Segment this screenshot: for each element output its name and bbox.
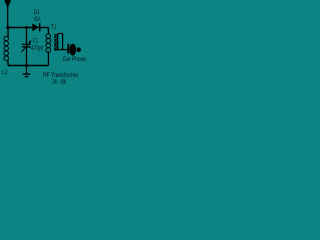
svg-text:470pf: 470pf [31, 46, 44, 52]
wire diode to corner [41, 27, 49, 29]
earphone [67, 44, 69, 54]
capacitor C1 arrow [21, 42, 30, 52]
background [0, 0, 88, 88]
svg-text:1k : 8k: 1k : 8k [52, 79, 67, 86]
wire top [8, 27, 32, 29]
wire C1 top lead [26, 28, 28, 44]
svg-text:Ear Phone: Ear Phone [63, 56, 86, 63]
svg-text:C1: C1 [33, 39, 39, 45]
wire earphone lead [58, 49, 68, 51]
transformer T1 secondary [55, 34, 58, 51]
node junction ground [25, 64, 28, 67]
wire primary bottom lead [47, 52, 49, 66]
transformer T1 primary [46, 34, 51, 53]
svg-text:D1: D1 [34, 10, 40, 16]
wire secondary join [62, 34, 64, 50]
wire bottom [8, 65, 48, 67]
node junction C1 top [25, 26, 28, 29]
wire corner down [47, 28, 49, 35]
svg-text:L1: L1 [2, 70, 8, 76]
node junction A [6, 26, 10, 30]
wire secondary top lead [58, 33, 63, 35]
capacitor C1 plates [22, 43, 31, 45]
inductor L1 [7, 28, 9, 38]
svg-text:GA: GA [34, 17, 41, 23]
diode D1 [32, 24, 39, 32]
wire antenna lead [7, 7, 9, 28]
antenna [4, 0, 11, 8]
svg-text:T1: T1 [51, 25, 57, 31]
wire C1 bottom lead [26, 48, 28, 66]
ground [26, 66, 28, 74]
